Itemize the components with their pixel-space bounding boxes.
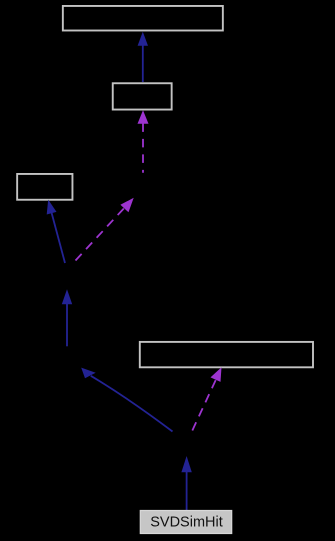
usage arrow hidden-nodeB to box4 (dashed purple) xyxy=(192,367,222,431)
node box1 (top base class, empty black box) xyxy=(63,6,223,31)
node SVDSimHit (filled gray box with label) xyxy=(140,511,231,534)
usage arrow hidden-node2 to box2 (dashed purple) xyxy=(138,110,149,173)
inheritance arrow hidden-nodeA to box3 (solid blue) xyxy=(47,200,65,263)
inheritance arrow SVDSimHit to hidden-nodeB (solid blue) xyxy=(181,456,191,510)
node box4 (right wide class box) xyxy=(140,342,313,367)
inheritance arrow box2 to box1 (solid blue) xyxy=(138,32,148,82)
node box3 (left class box) xyxy=(17,174,72,200)
usage arrow hidden-nodeA to hidden-node2 (dashed purple) xyxy=(76,198,134,261)
inheritance arrow hidden-nodeD to hidden-nodeA (solid blue) xyxy=(62,289,72,346)
svg-text:SVDSimHit: SVDSimHit xyxy=(150,514,223,530)
node box2 (second-level class box) xyxy=(113,83,172,109)
inheritance arrow hidden-nodeB to hidden-nodeD (solid blue, long diagonal) xyxy=(81,368,172,432)
